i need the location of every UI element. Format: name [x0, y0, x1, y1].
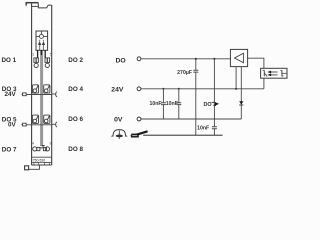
driver triangle	[235, 53, 244, 63]
svg-text:750-530: 750-530	[33, 158, 46, 162]
module label band top line	[32, 156, 52, 158]
module bottom foot right	[45, 162, 50, 165]
functional earth symbol	[111, 130, 127, 139]
svg-text:DO 7: DO 7	[2, 147, 17, 154]
module bottom edge	[32, 164, 52, 166]
row2 clamp box right	[44, 85, 50, 93]
0V exit wire right	[52, 123, 56, 125]
module label band bottom line	[32, 161, 52, 163]
power jumper blade symbol	[131, 131, 148, 137]
internal gray bus	[40, 50, 43, 146]
wire LED box to 24V line	[263, 78, 265, 89]
diode on E	[239, 101, 243, 104]
node dot 24V-A	[162, 88, 164, 90]
module top latch hook	[25, 3, 27, 6]
svg-text:24V: 24V	[111, 86, 124, 93]
wire driver output	[248, 58, 264, 68]
capacitor 270uF plates	[193, 70, 198, 72]
module top inner edge	[32, 5, 39, 7]
DO terminal circle	[137, 57, 141, 61]
capacitor 10nF D plates	[212, 127, 217, 129]
row1 clamp square right	[45, 58, 50, 63]
capacitor 10nF B vertical	[178, 89, 180, 119]
line D vertical	[213, 59, 215, 135]
wire 0V line	[141, 118, 241, 120]
row3 clamp box left	[32, 115, 38, 123]
light arrow bottom	[271, 74, 278, 76]
svg-text:DO 4: DO 4	[68, 86, 83, 93]
row2 circle right	[44, 89, 48, 93]
row3 clamp box right	[44, 115, 50, 123]
driver supply wire 1	[235, 67, 237, 89]
row4 square left	[37, 147, 40, 150]
row4 circle left	[33, 147, 37, 151]
module bottom foot left	[34, 162, 39, 165]
wire DO line	[141, 58, 231, 60]
row4 link wire	[40, 147, 44, 149]
module top latch bar	[26, 2, 39, 4]
capacitor 10nF A plates	[161, 103, 166, 105]
0V exit arc	[56, 122, 57, 127]
module top step profile	[38, 3, 51, 8]
zener element right	[281, 70, 283, 76]
24V exit wire right	[52, 93, 56, 95]
row4 T stub	[42, 146, 45, 148]
svg-text:0V: 0V	[8, 121, 17, 128]
LED box top stub	[40, 31, 42, 34]
rail hook bottom-left	[25, 166, 29, 170]
row1 wire marks	[36, 58, 47, 63]
LED box lamp circle	[39, 34, 43, 38]
24V terminal circle	[137, 87, 141, 91]
earth rail	[143, 134, 222, 136]
svg-text:4: 4	[32, 141, 35, 146]
LED triangle left	[38, 41, 41, 45]
arrow DO2	[212, 101, 215, 103]
node dot 24V-B	[178, 88, 180, 90]
0V terminal circle	[137, 117, 141, 121]
svg-text:DO: DO	[116, 58, 126, 65]
light arrow top	[271, 71, 278, 73]
driver supply wire 2	[240, 67, 242, 89]
rail hook line	[29, 165, 40, 169]
row1 circle left	[34, 63, 38, 67]
capacitor 10nF B plates	[176, 103, 181, 105]
svg-text:DO 1: DO 1	[1, 57, 16, 64]
node dot DO-D	[213, 58, 215, 60]
row3 circle left	[33, 119, 37, 123]
row3 hook left	[36, 116, 38, 120]
node dot DO-270uF	[195, 58, 197, 60]
0V feed wire	[26, 124, 52, 126]
LED box lamp line	[36, 35, 48, 37]
svg-text:10nF: 10nF	[149, 101, 161, 107]
row1 circle right	[45, 63, 49, 67]
24V feed wire	[26, 94, 52, 96]
row3 circle right	[44, 119, 48, 123]
wires LED box to row1	[38, 50, 46, 58]
24V feed blade symbol	[23, 93, 27, 96]
row2 hook right	[48, 86, 50, 90]
capacitor 10nF A vertical	[162, 89, 164, 119]
0V feed blade symbol	[23, 123, 27, 126]
module right edge	[51, 5, 53, 165]
svg-text:1: 1	[32, 52, 35, 57]
row2 hook left	[36, 86, 38, 90]
row2 circle left	[33, 89, 37, 93]
svg-text:270µF: 270µF	[177, 70, 192, 76]
wire E 24V to 0V	[240, 89, 242, 119]
row1 clamp square left	[34, 58, 39, 63]
row4 square right	[43, 147, 46, 150]
svg-text:10nF: 10nF	[197, 125, 209, 131]
module 750-530 outline left edge	[31, 3, 33, 165]
driver box U1	[230, 49, 247, 66]
row2 clamp box left	[32, 85, 38, 93]
LED box	[36, 31, 48, 50]
row3 hook right	[48, 116, 50, 120]
LED diode element left	[263, 70, 265, 76]
capacitor 270uF vertical	[195, 59, 197, 135]
node dot 24V-driver	[235, 88, 237, 90]
LED triangle right	[42, 41, 45, 45]
svg-text:DO 2: DO 2	[68, 57, 83, 64]
svg-text:24V: 24V	[4, 91, 16, 98]
svg-text:DO 8: DO 8	[68, 146, 83, 153]
svg-text:0V: 0V	[114, 117, 123, 124]
row4 circle right	[45, 147, 49, 151]
svg-text:10nF: 10nF	[166, 101, 178, 107]
svg-text:DO 6: DO 6	[68, 116, 83, 123]
24V exit arc	[56, 92, 57, 97]
LED indicator box	[261, 68, 287, 78]
LED stems	[40, 40, 44, 51]
wire 24V line	[141, 88, 264, 90]
